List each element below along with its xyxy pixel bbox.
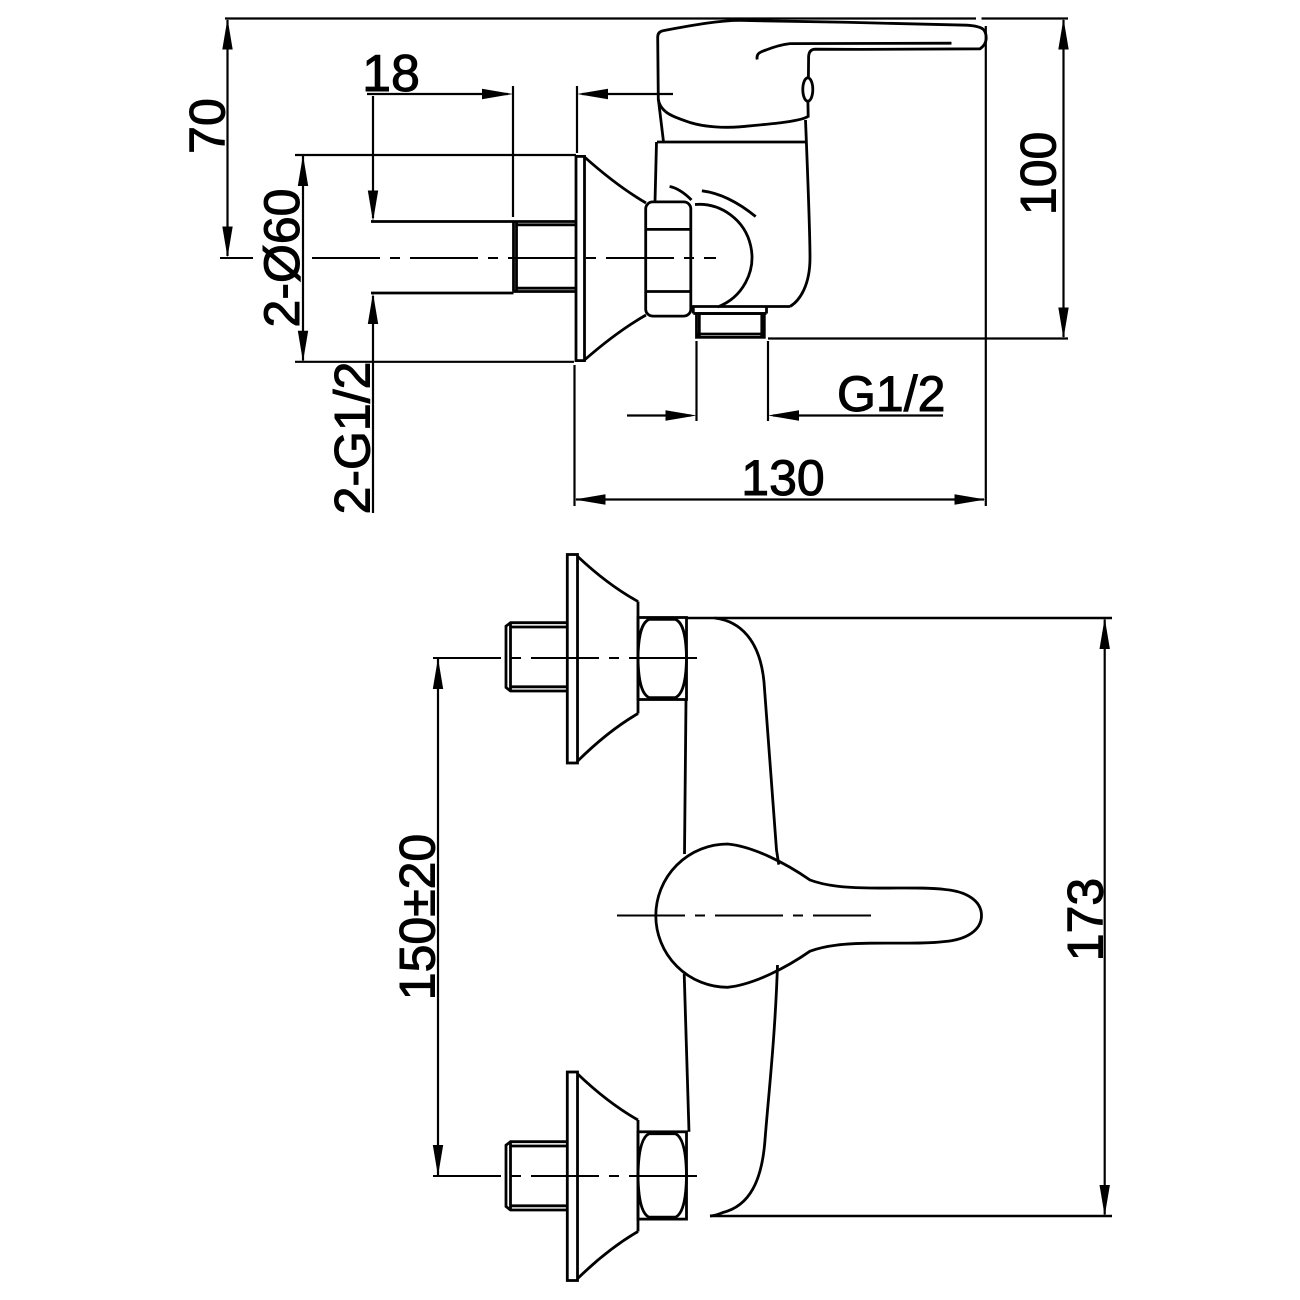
extension line 18 dim left [512,86,514,217]
body bottom edge (top view) [690,305,790,308]
dimension 100 line [1062,20,1064,337]
extension line bottom of outlet (100 dim) [768,337,1068,339]
centerline lever (front view) [617,915,871,917]
dimension 2-d60 line [302,156,304,361]
body arc small (top view) [670,187,692,201]
body left edge (top view) [655,142,657,202]
label 2-G1/2 text [325,362,381,515]
hex nut (top view) [646,202,691,316]
handle button ellipse (top view) [803,78,813,101]
dimension G1/2 left shaft [627,414,691,416]
dimension 2-d60 text [254,189,310,328]
dimension 70 line [226,20,228,256]
handle neck right edge (top view) [807,101,810,117]
svg-text:70: 70 [180,98,236,154]
body left edge upper (front view) [685,700,687,855]
centerline lower connection (front view) [433,1175,706,1177]
body ball arc (top view) [695,204,752,307]
outlet thread (top view) [697,314,765,338]
dimension 18 line left shaft [367,93,508,95]
threaded nipple (top view) [514,222,576,292]
svg-text:100: 100 [1011,132,1067,215]
body right edge lower (front view) [710,965,778,1216]
upper hex nut (front view) [638,618,687,700]
svg-text:150±20: 150±20 [390,834,446,1000]
dimension 18 line right shaft [582,93,673,95]
dimension 173 line [1104,620,1106,1215]
body dome left edge (top view) [658,100,663,142]
dimension 100 text [1011,132,1067,215]
extension line right (handle tip, 130/100) [985,26,987,506]
lever blob (front view) [656,844,982,987]
extension line 18 dim right [576,86,578,153]
svg-text:18: 18 [362,45,420,103]
leader 2-G1/2 lower segment with up arrow [372,296,374,513]
extension line G1/2 left [695,341,697,421]
wall plate (top view) [575,155,578,362]
svg-text:2-G1/2: 2-G1/2 [325,362,381,515]
extension line G1/2 right [767,341,769,421]
body arc medium (top view) [702,191,756,217]
dimension 173 text [1058,878,1114,961]
upper cone (front view) [578,557,638,602]
body top edge + 173 extension [686,617,1112,619]
body right edge (top view) [790,120,810,307]
extension line diameter60 bottom [295,361,574,363]
body left edge lower (front view) [684,974,689,1132]
dimension 130 line [576,498,984,500]
body bottom edge + 173 extension [710,1215,1112,1217]
lower hex nut (front view) [638,1132,687,1219]
dimension 150+-20 line [437,659,439,1175]
extension line top (100/70 dims) [225,17,976,19]
dimension 70 text [180,98,236,154]
centerline top view [220,257,253,259]
nipple thread leader lines (to 2-G1/2) [371,220,514,223]
escutcheon cone (top view) [585,157,647,203]
body joint line (top view) [657,141,806,144]
svg-text:173: 173 [1058,878,1114,961]
lower threaded stub (front view) [506,1142,568,1210]
leader 2-G1/2 upper segment with down arrow [372,96,374,218]
handle crease line (top view) [757,43,952,59]
outlet shoulder (top view) [692,307,695,314]
svg-text:G1/2: G1/2 [837,366,945,422]
lower cone (front view) [578,1074,638,1120]
handle bulb bottom edge (top view) [665,112,808,128]
upper wall plate (front view) [567,555,577,764]
body right edge upper (front view) [715,618,779,865]
dimension G1/2 right shaft [773,414,943,416]
extension line left plate edge down (130 dim) [573,365,575,506]
upper threaded stub (front view) [506,623,568,691]
svg-text:2-Ø60: 2-Ø60 [254,189,310,328]
centerline upper connection (front view) [433,657,706,659]
lower wall plate (front view) [567,1072,577,1281]
handle lever outline (top view) [658,20,987,111]
extension line diameter60 top [295,154,576,156]
svg-text:130: 130 [741,450,824,506]
dimension 150+-20 text [390,834,446,1000]
